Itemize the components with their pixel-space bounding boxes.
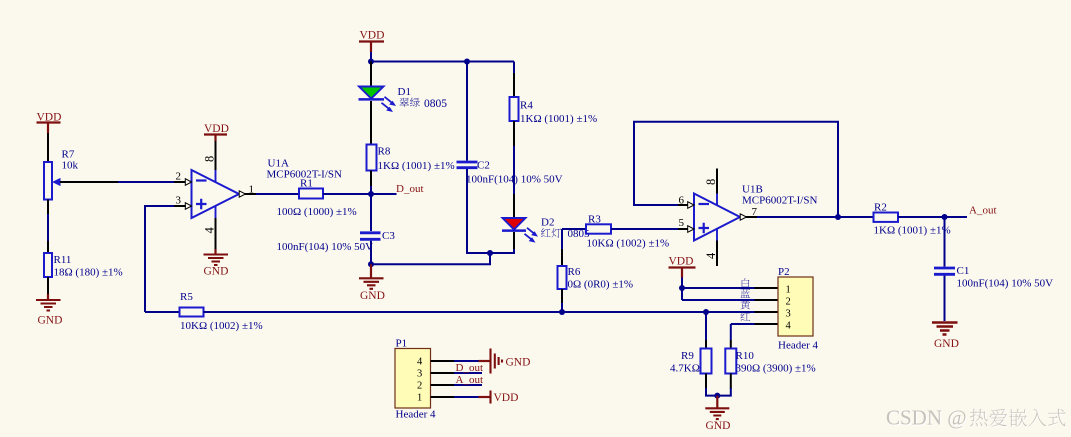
wire C3 node to C2/D2 node [371, 253, 490, 264]
wire label red [741, 312, 751, 321]
resistor R1 [299, 189, 323, 199]
wire C2 to C2/D2 node [467, 169, 490, 253]
svg-text:R8: R8 [378, 146, 391, 158]
wire top rail to R4 branch [371, 61, 514, 63]
junction at C3 ground node [368, 261, 374, 267]
wire A_out node to C1 [944, 217, 946, 267]
wire to P2 pin 1 [682, 287, 755, 289]
ground GND (P1 pin 4, rotated) [479, 349, 531, 374]
svg-text:4: 4 [704, 252, 718, 259]
resistor R7 (potentiometer) [44, 162, 61, 200]
svg-text:10KΩ (1002) ±1%: 10KΩ (1002) ±1% [180, 320, 263, 332]
svg-text:100nF(104) 10% 50V: 100nF(104) 10% 50V [957, 278, 1054, 290]
LED D2 (red) [502, 218, 538, 243]
svg-text:C2: C2 [477, 160, 490, 172]
resistor R3 [586, 224, 611, 233]
wire C1 to ground [944, 276, 946, 321]
wire pin3 net to R5 [145, 311, 180, 313]
resistor R11 [44, 253, 52, 277]
svg-text:0805: 0805 [424, 98, 447, 110]
svg-text:100Ω (1000) ±1%: 100Ω (1000) ±1% [277, 206, 357, 218]
junction at D_out node [368, 191, 374, 197]
pin 3 stub U1A [174, 205, 186, 207]
wire R9 to ground node [705, 374, 707, 390]
svg-text:Header 4: Header 4 [396, 409, 437, 421]
svg-text:10KΩ (1002) ±1%: 10KΩ (1002) ±1% [587, 238, 670, 250]
wire VDD to U1A pin 8 [215, 141, 217, 170]
power VDD (P2 feed) [669, 255, 696, 277]
wire R7 wiper to U1A pin 2 [60, 181, 118, 183]
wire U1B output to R2 [757, 216, 874, 218]
wire U1A pin 3 input [145, 206, 174, 312]
wire R4 to D2 anode [513, 121, 515, 146]
wire to P2 pin 4 from R10 [731, 323, 755, 325]
svg-text:C3: C3 [382, 230, 395, 242]
pin 8 wire U1B [716, 169, 718, 194]
svg-text:GND: GND [38, 315, 63, 327]
svg-text:4: 4 [786, 320, 792, 331]
svg-text:4: 4 [417, 356, 423, 367]
wire R5 to P2 pin 3 [204, 311, 755, 313]
svg-text:2: 2 [786, 296, 791, 307]
svg-text:1KΩ (1001) ±1%: 1KΩ (1001) ±1% [874, 225, 951, 237]
wire VDD to P2 pins 1,2 [681, 278, 683, 301]
svg-text:Header 4: Header 4 [778, 340, 819, 352]
wire R10 to ground node [730, 374, 732, 390]
junction R5/R9 [703, 309, 709, 315]
wire R11 to ground [47, 277, 49, 299]
svg-text:R10: R10 [736, 350, 755, 362]
op-amp U1B [688, 194, 747, 241]
svg-text:5: 5 [679, 217, 685, 229]
wire P2 pin4 to R10 [730, 324, 732, 340]
capacitor C3 [360, 233, 381, 240]
wire label white [742, 278, 750, 288]
wire top rail down to R4 [513, 62, 515, 74]
ground GND (left rail) [36, 294, 62, 327]
junction at C2/D2 node [487, 250, 493, 256]
op-amp U1A [185, 170, 245, 218]
svg-text:P1: P1 [396, 338, 408, 350]
junction at VDD/D1 node [368, 59, 374, 65]
resistor R10 [725, 349, 736, 374]
svg-text:CSDN @: CSDN @ [886, 406, 967, 430]
svg-text:0Ω (0R0) ±1%: 0Ω (0R0) ±1% [568, 279, 634, 291]
wire P1 pin 4 to GND port [454, 360, 479, 362]
svg-text:R5: R5 [180, 291, 193, 303]
svg-text:R3: R3 [588, 214, 601, 226]
capacitor C2 [457, 162, 478, 168]
svg-text:18Ω (180) ±1%: 18Ω (180) ±1% [54, 267, 123, 279]
svg-text:8: 8 [203, 156, 217, 162]
svg-text:1: 1 [417, 392, 422, 403]
svg-text:6: 6 [679, 195, 685, 207]
wire R6 to R5 net [561, 289, 563, 304]
pin stubs P1 [431, 361, 455, 397]
wire label blue [740, 289, 750, 298]
pin 6 stub U1B [678, 204, 688, 206]
resistor R2 [874, 213, 899, 222]
watermark CSDN [886, 406, 1067, 431]
pin 4 wire U1B [716, 241, 718, 267]
svg-text:8: 8 [704, 179, 718, 185]
junction VDD/pin1 [679, 285, 685, 291]
svg-text:GND: GND [934, 338, 959, 350]
svg-text:GND: GND [360, 290, 385, 302]
junction R6/R5 [559, 309, 565, 315]
svg-text:R4: R4 [520, 100, 533, 112]
svg-text:VDD: VDD [204, 123, 229, 135]
wire R6 top to R3 [562, 228, 586, 230]
svg-text:R9: R9 [681, 350, 694, 362]
svg-text:C1: C1 [957, 265, 970, 277]
wire P1 pin 1 to VDD port [454, 396, 479, 398]
wire U1A output pin 1 to R1 [256, 193, 299, 195]
wire U1B feedback loop pin7 to pin6 [634, 122, 838, 217]
ground GND (C1) [932, 323, 959, 351]
svg-text:MCP6002T-I/SN: MCP6002T-I/SN [742, 195, 817, 207]
svg-text:VDD: VDD [494, 392, 519, 404]
ground GND (U1A pin 4) [204, 249, 229, 278]
svg-text:R11: R11 [54, 254, 72, 266]
wire P1 pin 2 (A_out) [454, 384, 482, 386]
label D1 value (green LED 0805) [399, 98, 447, 110]
svg-text:D2: D2 [541, 217, 554, 229]
svg-text:R6: R6 [568, 266, 581, 278]
svg-text:3: 3 [786, 308, 791, 319]
wire C3 to ground node [370, 241, 372, 265]
power VDD (P1 pin 1) [479, 391, 519, 404]
svg-text:10k: 10k [62, 160, 79, 172]
svg-text:R1: R1 [300, 178, 313, 190]
svg-text:GND: GND [506, 356, 531, 368]
svg-text:3: 3 [417, 368, 422, 379]
ground GND (center) [359, 264, 385, 302]
svg-text:390Ω (3900) ±1%: 390Ω (3900) ±1% [736, 363, 816, 375]
svg-text:A_out: A_out [456, 374, 484, 386]
junction R9/R10 ground node [714, 393, 720, 399]
resistor R8 [367, 145, 377, 171]
svg-text:2: 2 [176, 171, 182, 183]
svg-text:GND: GND [204, 266, 229, 278]
pin 5 stub U1B [678, 228, 688, 230]
svg-text:100nF(104) 10% 50V: 100nF(104) 10% 50V [277, 241, 374, 253]
wire R1 to D_out node [323, 193, 397, 195]
power VDD (left rail) [37, 112, 62, 133]
wire node to D1 anode [370, 62, 372, 87]
svg-text:4: 4 [203, 227, 217, 234]
header P1 [395, 349, 431, 409]
label D2 value (red LED 0805) [541, 228, 590, 240]
wire R3 to U1B pin 5 [611, 228, 678, 230]
wire VDD to top node [370, 52, 372, 62]
wire C2 branch down [466, 62, 468, 161]
wire R6 branch [561, 229, 563, 249]
svg-text:1: 1 [786, 284, 791, 295]
svg-text:A_out: A_out [969, 204, 997, 216]
svg-text:P2: P2 [778, 266, 790, 278]
resistor R6 [558, 266, 567, 289]
svg-text:R2: R2 [874, 202, 887, 214]
wire to P2 pin 2 [682, 299, 755, 301]
svg-text:4.7KΩ: 4.7KΩ [670, 363, 700, 375]
wire label yellow [740, 300, 750, 310]
power VDD (top center) [359, 29, 384, 52]
wire U1A pin 4 to ground [215, 218, 217, 249]
wire D1 cathode to R8 [370, 101, 372, 145]
svg-text:3: 3 [176, 195, 182, 207]
pin stubs P2 [755, 288, 779, 324]
junction at C2 branch [464, 59, 470, 65]
junction A_out/C1 [942, 214, 948, 220]
power VDD (U1A pin 8) [204, 123, 229, 141]
wire R2 to A_out node [898, 216, 967, 218]
svg-text:D_out: D_out [456, 362, 484, 374]
ground GND (R9/R10) [705, 396, 730, 432]
wire D2 cathode to node [513, 232, 515, 249]
wire R8 to D_out node [370, 171, 372, 188]
resistor R5 [180, 308, 204, 317]
svg-text:1KΩ (1001) ±1%: 1KΩ (1001) ±1% [520, 113, 597, 125]
wire P1 pin 3 (D_out) [454, 372, 482, 374]
capacitor C1 [934, 268, 955, 274]
wire R7 to R11 [47, 200, 49, 254]
svg-text:2: 2 [417, 380, 422, 391]
wire VDD to R7 [47, 133, 49, 162]
pin 1 stub U1A [245, 193, 256, 195]
pin 7 stub U1B [746, 216, 757, 218]
svg-text:VDD: VDD [669, 255, 694, 267]
svg-text:GND: GND [706, 420, 731, 432]
resistor R9 [701, 349, 712, 374]
resistor R4 [510, 97, 519, 121]
svg-text:VDD: VDD [360, 29, 385, 41]
svg-text:D_out: D_out [396, 183, 424, 195]
wire R5 net to R9 [705, 312, 707, 340]
LED D1 (green) [359, 87, 397, 113]
junction feedback/output [835, 214, 841, 220]
svg-text:1KΩ (1001) ±1%: 1KΩ (1001) ±1% [378, 160, 455, 172]
header P2 [778, 277, 813, 336]
svg-text:D1: D1 [398, 86, 411, 98]
pin 2 stub U1A [174, 181, 186, 183]
